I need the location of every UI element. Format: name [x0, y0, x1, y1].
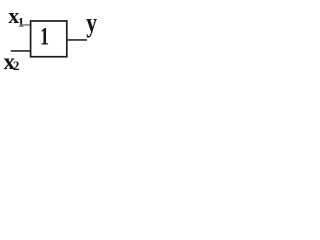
svg-text:2: 2: [13, 58, 20, 73]
gate box U1 (GOST OR "1"): [31, 21, 67, 57]
wire y output: [67, 39, 87, 41]
svg-text:y: y: [86, 8, 97, 38]
svg-text:1: 1: [40, 23, 49, 51]
svg-text:1: 1: [18, 15, 25, 30]
wire x2 input: [11, 50, 30, 52]
wire x1 input: [20, 24, 30, 26]
